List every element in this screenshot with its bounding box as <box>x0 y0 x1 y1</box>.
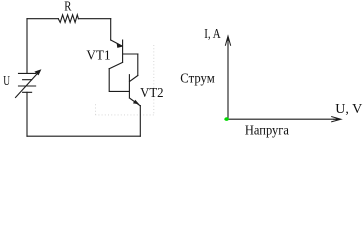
arrowhead VT1 emitter (PNP) <box>117 43 123 48</box>
wire top rail <box>27 18 111 20</box>
svg-text:Напруга: Напруга <box>245 124 290 139</box>
transistor VT2 <box>129 75 140 106</box>
svg-text:R: R <box>64 0 72 14</box>
resistor R <box>58 15 78 23</box>
wire left rail <box>26 19 28 137</box>
svg-text:VT2: VT2 <box>140 86 164 101</box>
svg-text:Струм: Струм <box>180 71 215 86</box>
wire VT1 collector to VT2 base <box>109 69 129 92</box>
variable arrow <box>16 72 39 97</box>
transistor VT1 <box>109 40 138 69</box>
battery U (variable source) <box>19 73 36 92</box>
arrowhead VT2 emitter (NPN) <box>133 100 139 105</box>
arrowhead of variable arrow <box>34 69 41 75</box>
node origin (green dot) <box>224 117 229 121</box>
axis I (vertical) <box>227 38 229 119</box>
wire VT1 emitter drop <box>110 19 112 40</box>
svg-text:U: U <box>3 74 10 89</box>
wire VT2 collector to VT1 base <box>137 54 139 76</box>
svg-text:VT1: VT1 <box>86 49 110 64</box>
axis U (horizontal) <box>228 118 339 120</box>
wire bottom rail <box>27 135 140 137</box>
wire VT2 emitter drop <box>139 106 141 137</box>
svg-text:U, V: U, V <box>335 102 362 117</box>
svg-text:I, A: I, A <box>204 27 221 42</box>
